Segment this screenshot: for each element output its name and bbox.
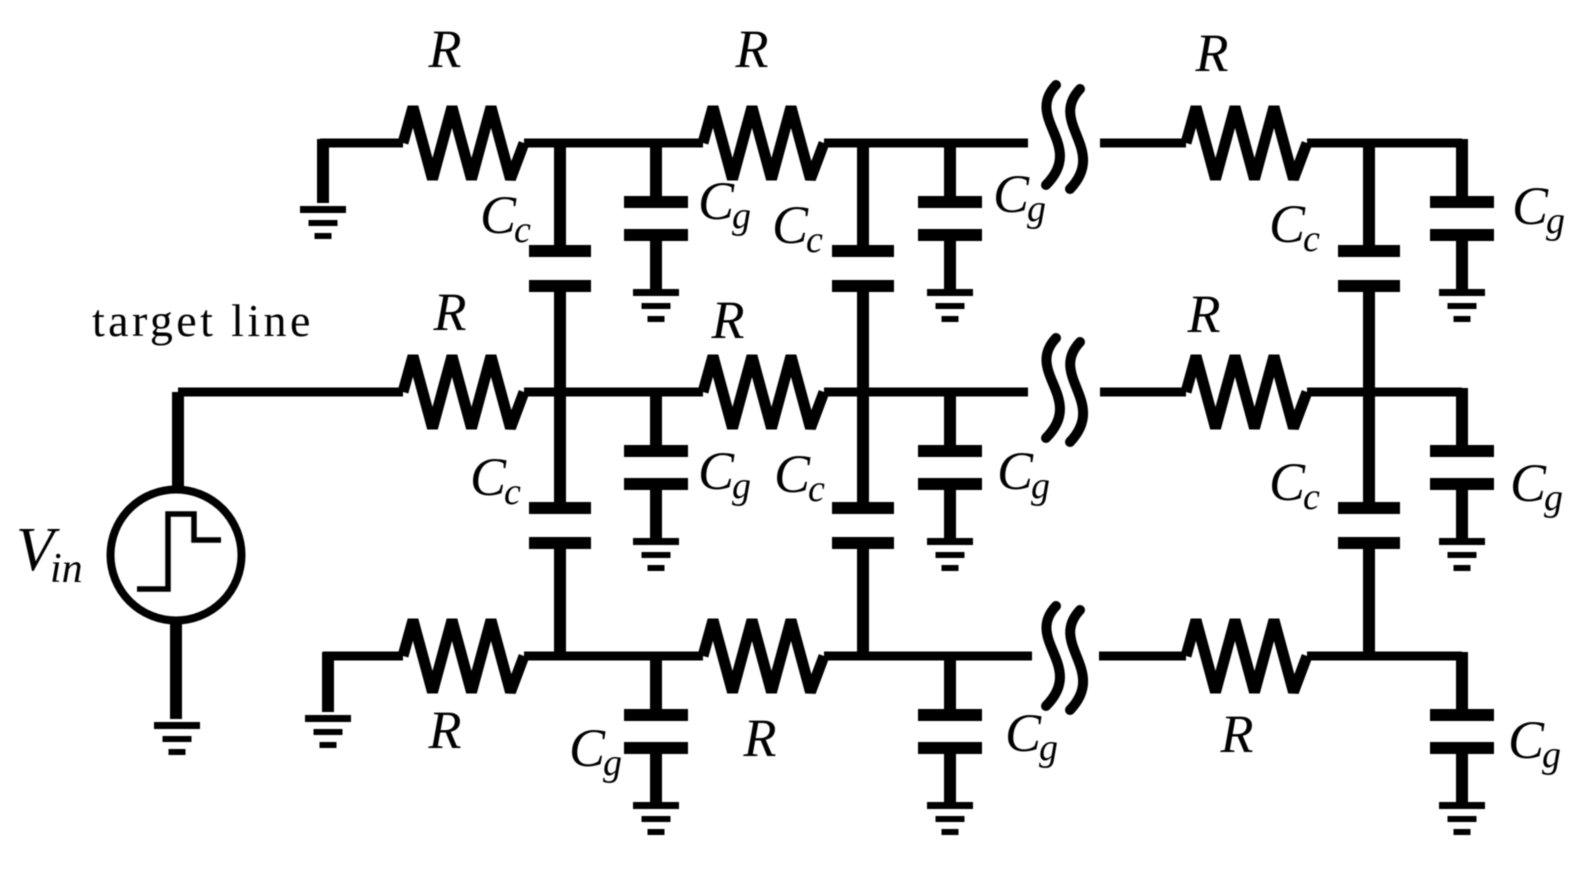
svg-text:R: R (1187, 284, 1221, 344)
ground Vin (154, 722, 200, 755)
wire Cg row3 col2 lower stub (944, 752, 956, 802)
svg-text:g: g (603, 742, 622, 784)
label Cg row3 col2 (1005, 703, 1058, 769)
svg-text:C: C (1512, 176, 1549, 236)
ground Cg row3 col2 (927, 802, 973, 835)
label Cc col3 row1-2 (1269, 194, 1320, 260)
resistor R row1 seg2 (703, 107, 824, 179)
svg-text:R: R (433, 282, 467, 342)
label Cc col1 row1-2 (480, 185, 531, 251)
resistor R row3 seg2 (703, 620, 824, 692)
label Cg row2 col1 (698, 441, 751, 507)
svg-text:g: g (1544, 477, 1563, 519)
wire Cc1 upper stub (row1-row2) (554, 143, 566, 247)
label R row1 seg2 (735, 19, 769, 79)
break row3 (line-break squiggle) (1046, 606, 1083, 710)
wire Cc2 lower stub to row3 (857, 547, 869, 656)
wire row2 node2 to break (824, 388, 1028, 397)
wire Cg row2 col3 upper stub (1456, 396, 1468, 447)
svg-text:C: C (480, 185, 517, 245)
wire Cg row1 col2 lower stub (944, 239, 956, 289)
label R row1 seg3 (1195, 23, 1229, 83)
ground Cg row3 col3 (1439, 802, 1485, 835)
svg-text:g: g (1031, 465, 1050, 507)
label R row2 seg1 (433, 282, 467, 342)
wire row1 node1 to R2 (524, 139, 703, 148)
wire row3 after break (1099, 652, 1186, 661)
wire row3 left stub vertical (322, 652, 334, 712)
wire Cg row1 col3 lower stub (1456, 239, 1468, 289)
svg-text:R: R (711, 290, 745, 350)
svg-text:R: R (743, 708, 777, 768)
capacitor Cg row3 col2 (918, 709, 982, 754)
svg-text:c: c (514, 209, 531, 251)
ground Cg row3 col1 (633, 802, 679, 835)
capacitor Cc col3 row2-row3 (1338, 502, 1400, 549)
wire row3 node1 to R2 (524, 652, 703, 661)
label Cg row1 col2 (993, 164, 1046, 230)
capacitor Cg row2 col2 (918, 445, 982, 490)
break row1 (line-break squiggle) (1046, 85, 1083, 189)
wire Cc2 upper stub (row1-row2) (857, 143, 869, 247)
ground Cg row1 col2 (927, 289, 973, 322)
capacitor Cg row2 col1 (624, 445, 688, 490)
label Cc col2 row2-3 (774, 444, 825, 510)
wire Cg row2 col3 lower stub (1456, 488, 1468, 538)
wire Cc1 lower stub to row3 (554, 547, 566, 656)
wire row3 to right corner (1307, 652, 1462, 661)
wire Cg row3 col1 upper stub (650, 660, 662, 711)
capacitor Cc col2 row2-row3 (832, 502, 894, 549)
resistor R row2 seg2 (703, 356, 824, 428)
ground Cg row2 col1 (633, 538, 679, 571)
resistor R row3 seg3 (1186, 620, 1307, 692)
label Cc col1 row2-3 (470, 447, 521, 513)
label R row2 seg2 (711, 290, 745, 350)
label Cg row1 col1 (698, 171, 751, 237)
svg-text:C: C (698, 441, 735, 501)
wire Cg row2 col2 lower stub (944, 488, 956, 538)
wire Cc1 lower stub to row2 (554, 290, 566, 392)
wire row3 right corner drop (1456, 652, 1468, 715)
voltage source Vin (step source) (111, 490, 242, 621)
svg-text:g: g (1027, 188, 1046, 230)
label R row1 seg1 (428, 19, 462, 79)
resistor R row2 seg1 (403, 356, 524, 428)
label Cg row3 col3 (1508, 710, 1561, 776)
svg-text:c: c (1303, 476, 1320, 518)
wire row2 target line from source (178, 388, 403, 397)
svg-text:C: C (698, 171, 735, 231)
svg-text:C: C (470, 447, 507, 507)
svg-text:C: C (993, 164, 1030, 224)
svg-text:g: g (1039, 727, 1058, 769)
svg-text:C: C (772, 195, 809, 255)
svg-text:g: g (1546, 200, 1565, 242)
svg-text:R: R (428, 19, 462, 79)
wire row1 right corner drop (1456, 139, 1468, 202)
svg-text:C: C (1005, 703, 1042, 763)
wire Cg row1 col2 upper stub (944, 147, 956, 198)
wire row1 left stub horizontal (320, 139, 403, 148)
label Cg row3 col1 (569, 718, 622, 784)
wire Cc2 lower stub to row2 (857, 290, 869, 392)
ground Cg row1 col3 (1439, 289, 1485, 322)
wire Cc1 upper stub (row2-row3) (554, 392, 566, 504)
wire Cg row2 col2 upper stub (944, 396, 956, 447)
wire Cg row1 col1 lower stub (650, 239, 662, 289)
resistor R row3 seg1 (403, 620, 524, 692)
ground Cg row2 col3 (1439, 538, 1485, 571)
label Cg row1 col3 (1512, 176, 1565, 242)
wire Cg row1 col3 upper stub (1456, 147, 1468, 198)
svg-text:c: c (808, 468, 825, 510)
label Cc col2 row1-2 (772, 195, 823, 261)
wire row2 node1 to R2 (524, 388, 703, 397)
capacitor Cc col1 row1-row2 (529, 245, 591, 292)
wire Cc3 upper stub (row2-row3) (1363, 392, 1375, 504)
capacitor Cg row1 col3 (1430, 196, 1494, 241)
break row2 (line-break squiggle) (1046, 338, 1083, 442)
svg-text:in: in (50, 546, 83, 592)
wire row3 left stub horizontal (323, 652, 403, 661)
wire Cc3 upper stub (row1-row2) (1363, 143, 1375, 247)
label Cc col3 row2-3 (1269, 452, 1320, 518)
svg-text:g: g (1542, 734, 1561, 776)
capacitor Cg row1 col2 (918, 196, 982, 241)
wire Cc3 lower stub to row3 (1363, 547, 1375, 656)
wire Cg row3 col1 lower stub (650, 752, 662, 802)
wire row1 to right corner (1307, 139, 1462, 148)
label target line (92, 295, 314, 346)
svg-text:C: C (1269, 194, 1306, 254)
svg-text:C: C (1269, 452, 1306, 512)
wire row2 right corner drop (1456, 388, 1468, 451)
label R row3 seg3 (1220, 704, 1254, 764)
label R row3 seg2 (743, 708, 777, 768)
svg-text:R: R (1195, 23, 1229, 83)
capacitor Cc col3 row1-row2 (1338, 245, 1400, 292)
label Cg row2 col2 (997, 441, 1050, 507)
wire Cg row3 col2 upper stub (944, 660, 956, 711)
ground row1 left (300, 206, 346, 239)
wire row1 node2 to break (824, 139, 1028, 148)
svg-text:c: c (806, 219, 823, 261)
capacitor Cg row3 col3 (1430, 709, 1494, 754)
wire Cg row3 col3 upper stub (1456, 660, 1468, 711)
capacitor Cc col1 row2-row3 (529, 502, 591, 549)
capacitor Cc col2 row1-row2 (832, 245, 894, 292)
wire Cc2 upper stub (row2-row3) (857, 392, 869, 504)
wire Cg row2 col1 upper stub (650, 396, 662, 447)
ground Cg row1 col1 (633, 289, 679, 322)
resistor R row2 seg3 (1186, 356, 1307, 428)
svg-text:C: C (1508, 710, 1545, 770)
label Cg row2 col3 (1510, 453, 1563, 519)
svg-text:g: g (732, 195, 751, 237)
svg-text:g: g (732, 465, 751, 507)
wire row2 to right corner (1307, 388, 1462, 397)
svg-text:R: R (428, 700, 462, 760)
label Vin (16, 516, 83, 592)
wire Vin top lead (172, 392, 184, 486)
svg-text:R: R (1220, 704, 1254, 764)
capacitor Cg row2 col3 (1430, 445, 1494, 490)
svg-text:C: C (774, 444, 811, 504)
wire Cg row2 col1 lower stub (650, 488, 662, 538)
svg-text:C: C (997, 441, 1034, 501)
svg-text:target line: target line (92, 295, 314, 346)
capacitor Cg row3 col1 (624, 709, 688, 754)
ground row3 left (305, 715, 351, 748)
resistor R row1 seg1 (403, 107, 524, 179)
wire Cg row3 col3 lower stub (1456, 752, 1468, 802)
svg-text:c: c (1303, 218, 1320, 260)
label R row3 seg1 (428, 700, 462, 760)
wire row2 after break (1100, 388, 1186, 397)
wire row1 left stub vertical (317, 139, 329, 203)
ground Cg row2 col2 (927, 538, 973, 571)
wire row3 node2 to break (824, 652, 1032, 661)
svg-text:C: C (569, 718, 606, 778)
label R row2 seg3 (1187, 284, 1221, 344)
capacitor Cg row1 col1 (624, 196, 688, 241)
resistor R row1 seg3 (1186, 107, 1307, 179)
wire Cg row1 col1 upper stub (650, 147, 662, 198)
svg-text:C: C (1510, 453, 1547, 513)
svg-text:R: R (735, 19, 769, 79)
wire Cc3 lower stub to row2 (1363, 290, 1375, 392)
wire row1 after break (1100, 139, 1186, 148)
svg-text:c: c (504, 471, 521, 513)
wire Vin bottom lead (170, 622, 182, 719)
